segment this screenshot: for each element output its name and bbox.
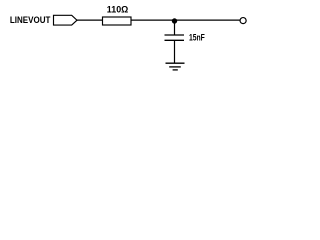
svg-text:110Ω: 110Ω bbox=[107, 5, 129, 15]
svg-text:15nF: 15nF bbox=[189, 32, 205, 42]
svg-text:LINEVOUT: LINEVOUT bbox=[10, 15, 51, 26]
